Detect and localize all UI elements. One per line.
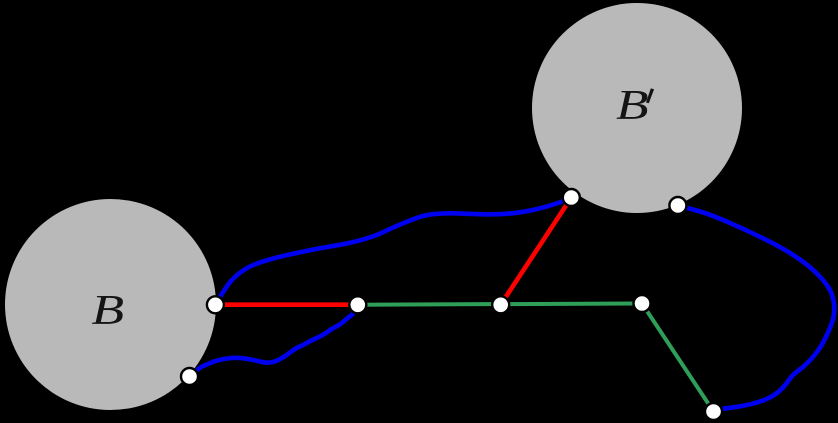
vertex v3 [349, 296, 366, 313]
vertex v5 [563, 189, 580, 206]
svg-text:B: B [616, 82, 649, 128]
edge red v4-v5 [501, 198, 572, 305]
vertex v8 [705, 403, 722, 420]
vertex v6 [669, 197, 686, 214]
label B' [616, 82, 654, 128]
svg-text:B: B [92, 287, 125, 333]
edge red v1-v3 [215, 302, 357, 307]
ball B' [532, 3, 742, 213]
edge green v7-v8 [642, 304, 714, 412]
ball B [5, 199, 216, 410]
edge green v3-v7 [358, 304, 642, 305]
vertex v1 [207, 296, 224, 313]
vertex v7 [634, 295, 651, 312]
edge blue curve v6-v8 [678, 206, 834, 412]
vertex v4 [492, 296, 509, 313]
edge blue curve v2-v3 [190, 306, 358, 377]
edge blue curve v1-v5 [215, 198, 571, 305]
vertex v2 [181, 368, 198, 385]
